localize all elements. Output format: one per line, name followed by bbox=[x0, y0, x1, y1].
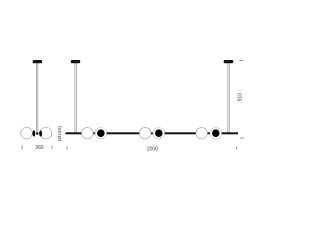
dim 910 top tick bbox=[240, 59, 244, 61]
svg-text:360: 360 bbox=[35, 145, 44, 151]
pair2 black sphere bbox=[155, 129, 163, 137]
front view right ceiling cap bbox=[224, 60, 234, 63]
pair2 black sphere ring bbox=[153, 128, 164, 139]
side view suspension rod bbox=[36, 63, 38, 132]
front view horizontal bar bbox=[66, 132, 239, 134]
pair3 white sphere bbox=[196, 128, 207, 139]
pair1 white sphere bbox=[82, 128, 93, 139]
dim 360 left tick bbox=[21, 145, 23, 149]
svg-text:910: 910 bbox=[238, 93, 244, 102]
side view ceiling cap bbox=[33, 60, 42, 63]
svg-text:2000: 2000 bbox=[147, 146, 158, 152]
pair1 black sphere ring bbox=[95, 128, 106, 139]
side view right sphere bbox=[40, 127, 52, 139]
front view left suspension rod bbox=[75, 63, 77, 132]
svg-text:(Ø150): (Ø150) bbox=[57, 126, 63, 142]
dim 2000 right tick bbox=[236, 147, 238, 150]
pair2 white sphere bbox=[140, 128, 151, 139]
front view right suspension rod bbox=[228, 63, 230, 132]
dim 2000 left tick bbox=[66, 146, 68, 150]
side view center hub dot bbox=[36, 132, 38, 134]
side view left sphere bbox=[21, 127, 33, 139]
pair3 black sphere bbox=[212, 129, 220, 137]
side view left socket nub bbox=[33, 130, 36, 136]
front view left ceiling cap bbox=[71, 60, 80, 63]
pair3 black sphere ring bbox=[210, 128, 221, 139]
pair1 black sphere bbox=[97, 129, 105, 137]
dim 360 right tick bbox=[51, 145, 53, 149]
side view right socket nub bbox=[39, 130, 42, 136]
dim 910 bottom tick bbox=[240, 137, 244, 139]
